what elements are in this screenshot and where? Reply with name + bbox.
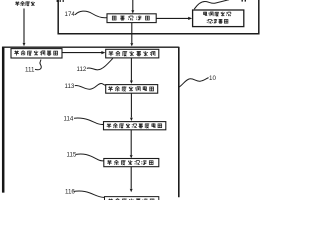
leader: curve from cut-off label 17x to sludge tank box	[194, 0, 229, 9]
wire: arrow from feed label down to treatment-system frame	[23, 9, 25, 43]
box: electrolysis wastewater sludge sedimentation tank (2-line CJK text)	[193, 10, 244, 27]
frame: upper sludge-treatment group box (top edge cut off)	[58, 0, 259, 34]
leader: squiggle from label 115 to sedimentation tank	[76, 154, 104, 161]
leader: squiggle from label 112 to collection well	[87, 58, 113, 69]
box C: raffinate wastewater regulation tank (CJK text)	[106, 85, 158, 94]
svg-text:113: 113	[65, 83, 75, 90]
box A: raffinate wastewater storage tank (CJK text)	[11, 49, 62, 58]
wire: arrow from coagulation reaction tank down to sedimentation tank	[130, 130, 132, 155]
svg-text:111: 111	[25, 67, 35, 74]
label fragment 11x (cut at top edge, left)	[57, 0, 58, 2]
node label: raffinate wastewater feed text (CJK)	[15, 1, 19, 6]
box F: next treatment tank (cut off at bottom edge)	[105, 197, 159, 201]
wire: arrow from collection well down to regulation tank	[130, 58, 132, 81]
frame: main raffinate treatment system box 10 (bottom cut off)	[2, 47, 5, 193]
leader: squiggle from label 114 to coagulation reaction tank	[74, 118, 103, 125]
leader: squiggle from frame 10 to label 10	[179, 78, 208, 87]
svg-text:174: 174	[65, 11, 76, 18]
patent flowchart figure: raffinate wastewater treatment system	[0, 0, 300, 200]
svg-text:115: 115	[67, 151, 77, 158]
box: coagulation sedimentation tank (CJK text)	[107, 14, 156, 23]
wire: arrow from storage tank to collection well	[62, 52, 102, 54]
wire: arrow from sedimentation tank down to next tank	[130, 167, 132, 189]
svg-text:112: 112	[77, 66, 87, 73]
label fragment 17x (cut at top edge)	[242, 0, 243, 2]
wire: arrow from coagulation tank to electrolysis sludge tank	[156, 17, 188, 19]
leader: squiggle from label 113 to regulation tank	[75, 84, 106, 90]
wire: arrow from regulation tank down to coagulation reaction tank	[130, 93, 132, 117]
wire: arrow from coagulation tank down to main frame	[131, 23, 133, 43]
leader: squiggle from label 174 to coagulation tank box	[75, 11, 107, 18]
wire: arrow into coagulation tank from top (cut off)	[132, 0, 134, 10]
leader: squiggle from label 116 to cut-off tank	[74, 191, 105, 197]
box B: raffinate wastewater collection well (CJK text)	[106, 49, 159, 58]
svg-text:114: 114	[64, 116, 74, 123]
svg-text:10: 10	[209, 75, 216, 82]
box D: raffinate wastewater coagulation reaction tank (CJK text)	[104, 122, 166, 130]
leader: zigzag from label 111 to storage tank	[35, 60, 41, 70]
box E: raffinate wastewater sedimentation tank (CJK text)	[104, 159, 159, 167]
svg-text:116: 116	[65, 188, 75, 195]
